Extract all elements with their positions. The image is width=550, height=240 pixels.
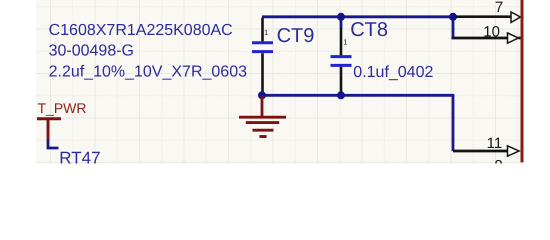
- power port T_PWR bar symbol: [37, 119, 61, 141]
- svg-text:2.2uf_10%_10V_X7R_0603: 2.2uf_10%_10V_X7R_0603: [49, 63, 247, 80]
- svg-text:7: 7: [495, 0, 503, 16]
- wire from T_PWR to RT47: [48, 140, 59, 149]
- svg-text:1: 1: [264, 28, 268, 37]
- junction at top right tee: [449, 13, 457, 21]
- svg-text:CT9: CT9: [277, 25, 315, 47]
- junction at CT8 bottom: [337, 91, 345, 99]
- pin 7 of U? (line and arrow): [455, 12, 520, 23]
- pin 10 (line and arrow): [452, 33, 521, 43]
- capacitor CT9: [252, 18, 273, 92]
- wire top net vertical drop to pin 10: [452, 15, 455, 38]
- svg-text:C1608X7R1A225K080AC: C1608X7R1A225K080AC: [49, 22, 233, 39]
- junction at CT8 top: [337, 13, 345, 21]
- capacitor CT8: [331, 28, 352, 92]
- wire bottom net vertical drop to pin 11: [452, 94, 455, 151]
- component body edge: [521, 0, 524, 162]
- svg-text:0.1uf_0402: 0.1uf_0402: [353, 64, 433, 81]
- ground: [239, 95, 286, 136]
- svg-text:1: 1: [343, 37, 347, 46]
- wire bottom net horizontal: [262, 94, 453, 97]
- wire top net horizontal: [262, 15, 453, 18]
- svg-text:10: 10: [483, 23, 500, 40]
- wire stub from top net to CT8: [340, 17, 343, 29]
- junction at CT9 bottom / ground: [258, 91, 266, 99]
- svg-text:T_PWR: T_PWR: [38, 100, 87, 116]
- pin 11 (line and arrow): [453, 146, 519, 156]
- svg-text:CT8: CT8: [350, 19, 388, 41]
- svg-text:11: 11: [487, 135, 503, 152]
- svg-text:30-00498-G: 30-00498-G: [49, 42, 134, 59]
